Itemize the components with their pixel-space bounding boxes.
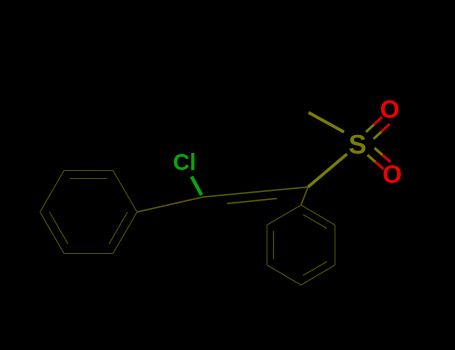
bond C1=C2 double bond main line xyxy=(203,187,308,197)
wire ring A edge BR-R xyxy=(113,212,137,254)
wire ring B inner double T-UR xyxy=(303,215,327,229)
wire ring B edge LR-B xyxy=(301,265,335,285)
bond C1=C2 double bond second line xyxy=(227,199,277,204)
wire ring B edge UR-LR xyxy=(334,225,336,265)
bond S=O1 double line b (olive half) xyxy=(374,132,382,140)
wire ring A inner double top xyxy=(70,178,107,180)
benzene ring A (left phenyl) xyxy=(40,171,137,254)
bond S=O2 double line b (red half) xyxy=(383,155,391,162)
bond S=O1 double line a (olive half) xyxy=(366,125,374,133)
bond S=O2 double line a (red half) xyxy=(376,162,384,169)
svg-text:O: O xyxy=(380,96,399,124)
bond S=O2 double line a (olive half) xyxy=(368,155,376,162)
wire ring A inner double lower-right xyxy=(109,212,128,244)
wire ring B edge UL-T xyxy=(267,205,301,225)
wire ring A inner double lower-left xyxy=(50,212,69,244)
wire ring B inner double LL-UL xyxy=(273,231,275,259)
bond S=O2 double line b (olive half) xyxy=(375,148,383,155)
wire ring B inner double LR-B xyxy=(303,262,327,276)
svg-text:Cl: Cl xyxy=(173,149,196,175)
wire ring A edge TL-L xyxy=(40,171,64,213)
wire ring B edge LL-UL xyxy=(266,225,268,265)
bond Cl-C1 (chlorine colored) xyxy=(192,177,202,196)
bond S=O1 double line a (red half) xyxy=(374,117,382,125)
wire ring A edge TR-TL (top) xyxy=(64,170,113,172)
bond C2-S xyxy=(308,154,347,187)
svg-text:S: S xyxy=(349,130,367,160)
bond C2 to ring B xyxy=(301,187,308,205)
svg-text:O: O xyxy=(383,161,402,189)
wire ring A edge R-TR xyxy=(113,171,137,213)
bond S=O1 double line b (red half) xyxy=(382,124,390,132)
benzene ring B (lower phenyl) xyxy=(267,205,335,285)
bond S-CH3 (methyl) xyxy=(309,113,345,133)
wire ring B edge B-LL xyxy=(267,265,301,285)
wire ring B edge T-UR xyxy=(301,205,335,225)
wire ring A edge BL-BR (bottom) xyxy=(64,253,113,255)
bond ring A to C1 xyxy=(137,197,203,212)
wire ring A edge L-BL xyxy=(40,212,64,254)
